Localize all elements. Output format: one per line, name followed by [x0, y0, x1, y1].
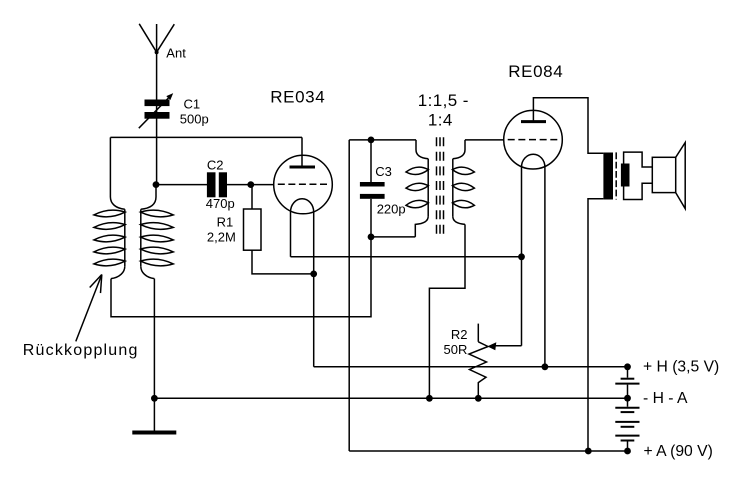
wire R2 wiper from RE084 left leg — [492, 345, 522, 347]
svg-text:RE084: RE084 — [508, 62, 563, 81]
battery cell 2 — [615, 398, 639, 412]
svg-text:Rückkopplung: Rückkopplung — [23, 342, 139, 359]
wire secondary top to RE084 grid — [465, 139, 504, 141]
wire RE034 left filament leg — [290, 212, 292, 257]
wire RE034 right filament leg down — [313, 212, 315, 367]
speaker LS1 voice coil outline — [624, 152, 653, 199]
junction ground node — [151, 395, 158, 402]
resistor R1 — [244, 209, 262, 250]
tube RE084 envelope — [504, 110, 563, 169]
wire C3 top node — [349, 139, 416, 141]
wire RE084 right filament leg — [544, 167, 546, 367]
svg-text:C3: C3 — [375, 164, 392, 179]
antenna symbol — [139, 24, 174, 54]
ground — [132, 431, 176, 435]
tube RE084 anode plate — [521, 120, 546, 123]
junction RE084 right leg to +H rail — [542, 363, 549, 370]
wire C3 bottom to transformer primary bottom — [371, 236, 415, 238]
svg-text:C2: C2 — [207, 158, 224, 173]
tube RE034 anode plate — [290, 166, 316, 169]
svg-text:+ A (90 V): + A (90 V) — [644, 443, 713, 460]
wire R1 bottom lead — [252, 250, 314, 274]
wire grid node to C2 — [156, 184, 207, 186]
battery cell 1 — [615, 367, 639, 398]
battery cell 3 — [615, 422, 639, 427]
wire RE084 anode lead to output transformer — [533, 98, 603, 153]
wire anode supply riser x350 — [348, 140, 350, 451]
wire +A rail — [349, 450, 627, 452]
svg-text:Ant: Ant — [166, 45, 186, 60]
wire RE084 left filament leg — [521, 167, 523, 346]
wire -H-A rail — [154, 397, 627, 399]
speaker LS1 horn — [676, 143, 686, 209]
wire filament rail to RE084 — [291, 256, 522, 258]
svg-text:C1: C1 — [184, 96, 201, 111]
wire secondary bottom return — [429, 224, 465, 398]
junction R1 top node — [247, 181, 254, 188]
svg-text:500p: 500p — [180, 111, 209, 126]
junction C3 top — [368, 137, 375, 144]
tube RE084 filament — [522, 154, 545, 167]
wire R1 top lead — [251, 185, 253, 209]
tube RE034 grid (dashed) — [278, 183, 327, 185]
svg-text:1:4: 1:4 — [428, 111, 453, 130]
wire antenna lead down through C1 to grid node — [156, 24, 158, 185]
wire anode top rail from feedback coil to RE034 anode — [110, 136, 302, 138]
coil L2 feedback winding — [94, 137, 125, 278]
wire feedback return down-left — [111, 237, 371, 317]
speaker LS1 magnet box — [652, 157, 675, 192]
svg-text:220p: 220p — [377, 202, 406, 217]
wire C2 to RE034 grid — [227, 184, 274, 186]
svg-text:RE034: RE034 — [270, 88, 325, 107]
coil L1 tuning winding — [141, 185, 174, 279]
junction R2 bottom to -H-A rail — [475, 395, 482, 402]
arrow pointing to feedback winding — [76, 275, 102, 342]
svg-text:470p: 470p — [206, 196, 235, 211]
battery cell 4 — [615, 436, 639, 451]
junction grid node C1/C2/L1 — [153, 181, 160, 188]
junction R1 to filament leg — [310, 271, 317, 278]
transformer T1 core (dashed) — [437, 137, 444, 235]
battery +A terminal — [624, 448, 631, 455]
wire C3 bottom lead — [370, 199, 372, 237]
junction secondary return to -H-A rail — [426, 395, 433, 402]
wire +H rail — [314, 366, 628, 368]
svg-text:R1: R1 — [217, 214, 234, 229]
svg-text:50R: 50R — [444, 342, 468, 357]
R2 wiper arrowhead — [487, 342, 496, 350]
junction speaker return to +A rail — [585, 448, 592, 455]
wire C3 top lead — [370, 140, 372, 182]
tube RE084 grid (dashed) — [508, 139, 558, 141]
wire RE034 anode lead — [301, 137, 303, 166]
speaker LS1 voice coil bar — [621, 164, 630, 187]
battery -H-A terminal — [624, 395, 631, 402]
capacitor C3 — [360, 182, 385, 199]
output transformer core (dashed) — [615, 152, 617, 199]
battery +H terminal — [624, 363, 631, 370]
resistor R2 rheostat — [469, 324, 488, 399]
tube RE034 envelope — [274, 155, 333, 214]
output transformer primary bar — [603, 153, 613, 200]
junction filament rail to RE084 — [518, 253, 525, 260]
junction C3 bottom — [368, 234, 375, 241]
transformer T1 secondary winding — [452, 140, 474, 225]
svg-text:+ H (3,5 V): + H (3,5 V) — [643, 358, 719, 375]
capacitor C1 (variable) — [139, 93, 173, 128]
svg-text:- H - A: - H - A — [643, 390, 688, 407]
tube RE034 filament — [291, 199, 314, 212]
svg-text:2,2M: 2,2M — [207, 230, 236, 245]
wire speaker return down to +A rail — [588, 199, 603, 451]
wire L1 bottom lead down to ground — [153, 279, 155, 431]
transformer T1 primary winding — [406, 140, 428, 237]
svg-text:R2: R2 — [451, 327, 468, 342]
capacitor C2 — [207, 172, 227, 197]
svg-text:1:1,5 -: 1:1,5 - — [418, 91, 469, 110]
